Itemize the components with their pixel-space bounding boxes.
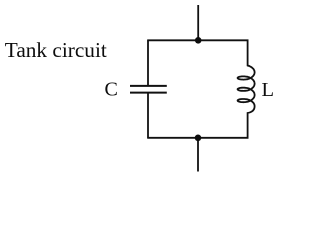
capacitor C top plate <box>130 85 167 87</box>
wire top horizontal <box>147 39 248 41</box>
capacitor C bottom plate <box>130 92 167 94</box>
svg-text:Tank circuit: Tank circuit <box>5 38 107 62</box>
node top junction dot <box>195 37 202 44</box>
svg-text:C: C <box>105 79 118 101</box>
wire left branch lower <box>147 93 149 138</box>
wire left branch upper <box>147 40 149 86</box>
node bottom junction dot <box>195 135 202 142</box>
wire bottom horizontal <box>147 137 248 139</box>
inductor L coil <box>238 40 255 138</box>
svg-text:L: L <box>262 79 275 101</box>
wire bottom terminal <box>197 138 199 172</box>
wire top terminal <box>197 5 199 40</box>
